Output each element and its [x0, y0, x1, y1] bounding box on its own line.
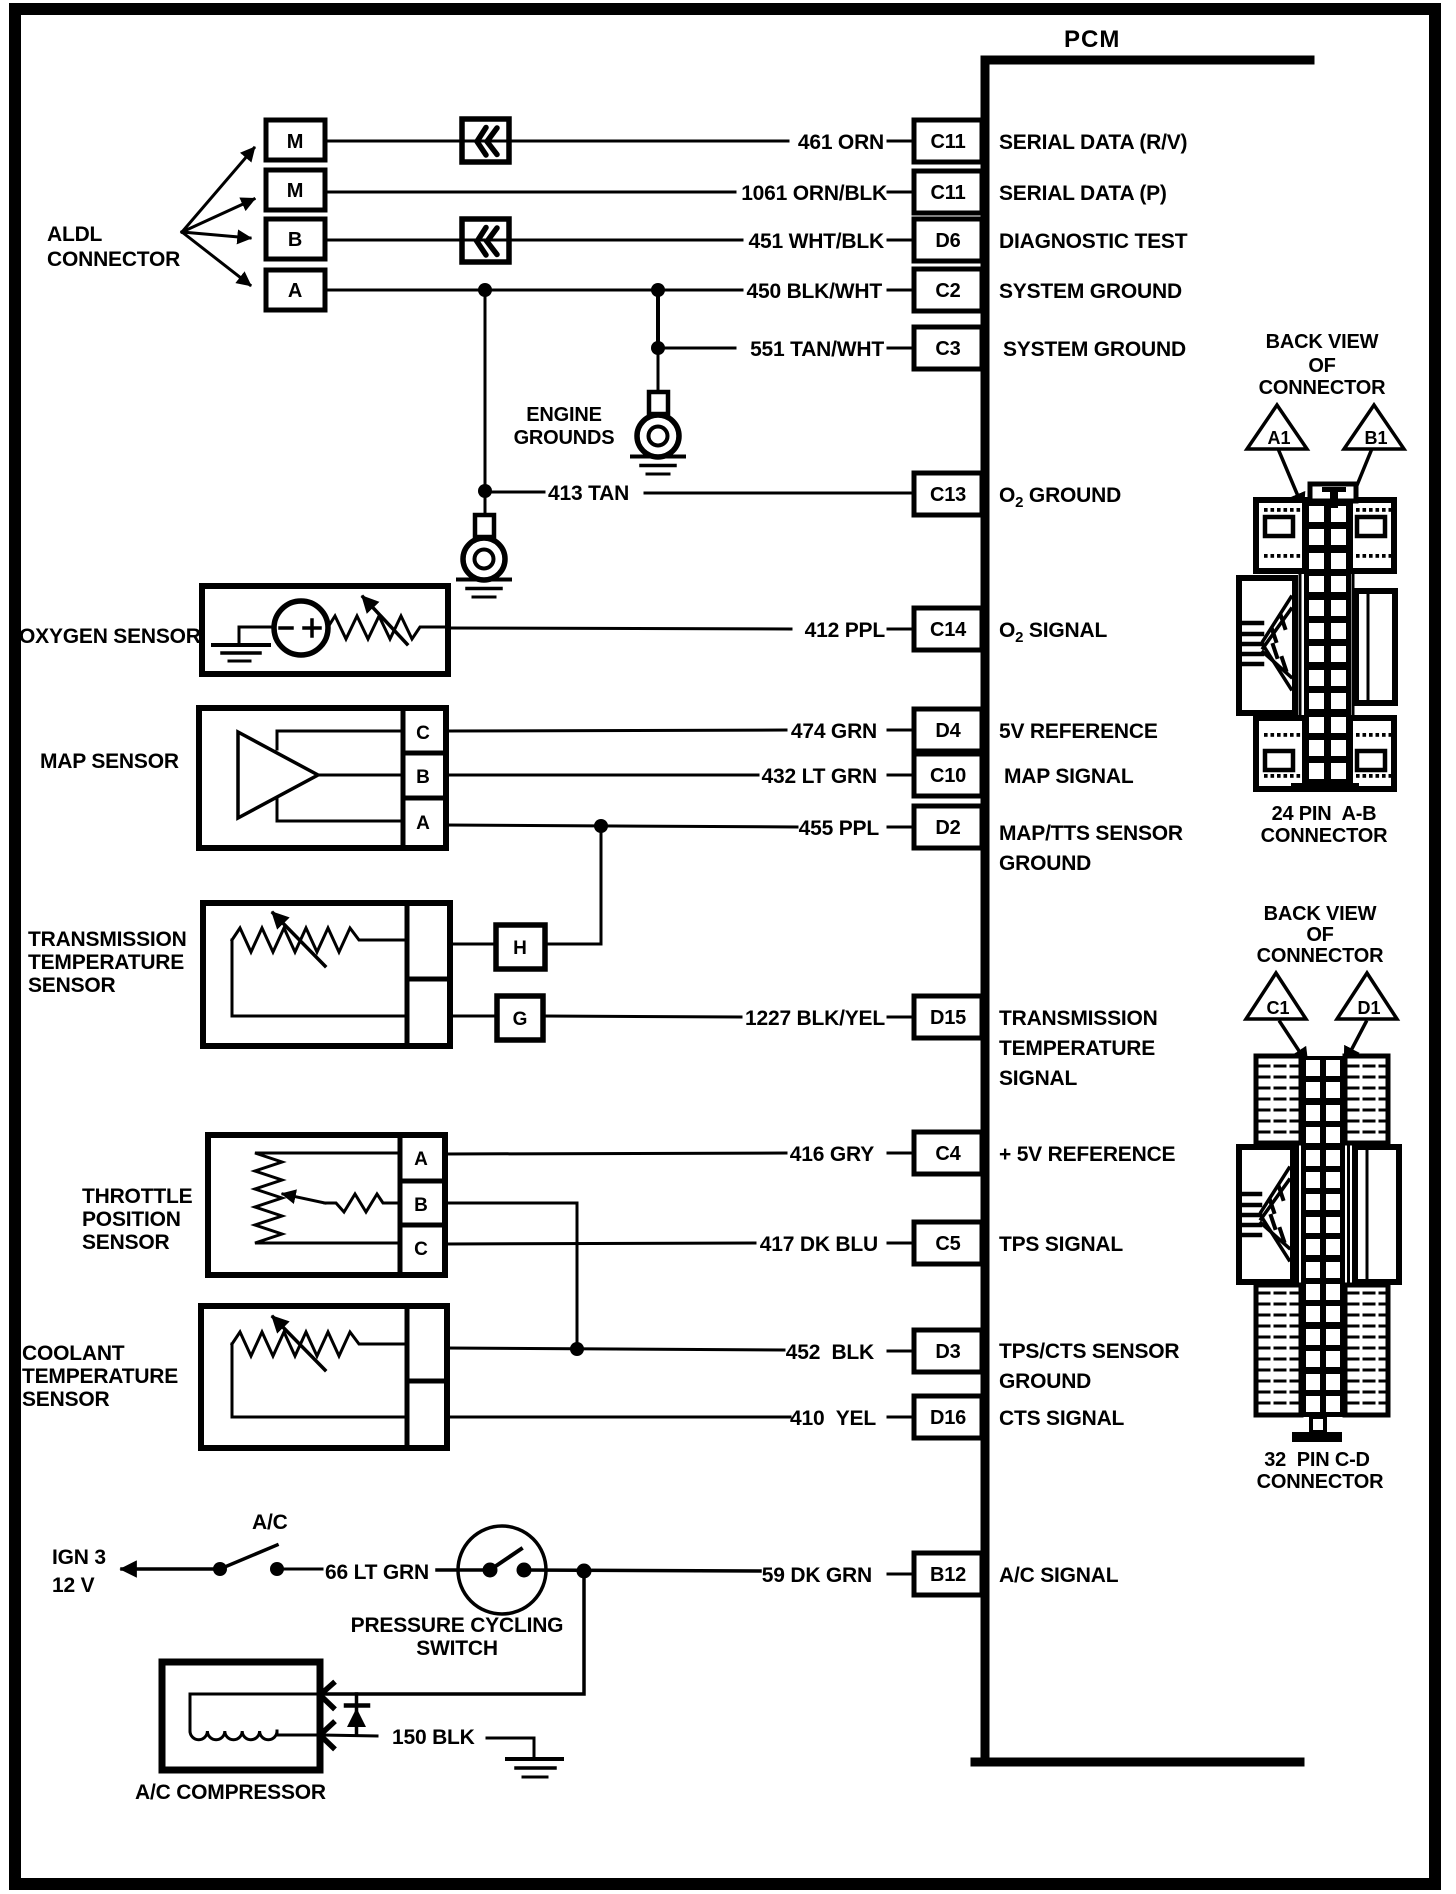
MAP wire A	[277, 799, 403, 821]
svg-text:DIAGNOSTIC TEST: DIAGNOSTIC TEST	[999, 230, 1188, 253]
BACK VIEW OF CONNECTOR label (24 pin)	[1259, 331, 1386, 399]
svg-text:SENSOR: SENSOR	[82, 1231, 170, 1254]
svg-text:474 GRN: 474 GRN	[791, 720, 877, 743]
PCM pin C3	[914, 327, 982, 369]
wire 1227 BLK/YEL to D15	[543, 1016, 741, 1017]
svg-text:CONNECTOR: CONNECTOR	[1259, 377, 1386, 399]
svg-text:POSITION: POSITION	[82, 1208, 181, 1231]
arrow D1 to connector	[1345, 1022, 1366, 1062]
compressor connector terminal	[320, 1723, 333, 1748]
TTS bottom wire	[232, 940, 407, 1016]
svg-text:416 GRY: 416 GRY	[790, 1143, 874, 1166]
compressor clutch coil L1	[190, 1694, 320, 1740]
svg-text:C3: C3	[935, 338, 960, 360]
svg-text:SYSTEM GROUND: SYSTEM GROUND	[1003, 338, 1186, 361]
svg-text:SENSOR: SENSOR	[22, 1388, 110, 1411]
svg-text:ALDL: ALDL	[47, 223, 103, 246]
oxygen sensor cell (battery symbol)	[274, 601, 328, 655]
svg-text:CONNECTOR: CONNECTOR	[1257, 945, 1384, 967]
svg-text:C11: C11	[931, 131, 966, 153]
svg-text:A/C: A/C	[252, 1511, 288, 1534]
svg-text:SYSTEM GROUND: SYSTEM GROUND	[999, 280, 1182, 303]
node A1 flag	[1247, 405, 1307, 449]
junction node	[651, 341, 665, 355]
COOLANT TEMPERATURE SENSOR label	[22, 1342, 178, 1411]
svg-text:GROUND: GROUND	[999, 1370, 1091, 1393]
svg-text:+ 5V REFERENCE: + 5V REFERENCE	[999, 1143, 1176, 1166]
ENGINE GROUNDS label	[514, 404, 615, 449]
PCM module outline U1	[985, 60, 1310, 1762]
junction node	[478, 283, 492, 297]
MAP wire C	[277, 731, 403, 749]
PCM pin C14	[914, 608, 982, 650]
node D1 flag	[1337, 973, 1397, 1019]
data link chevron symbol	[477, 128, 497, 156]
svg-text:A/C COMPRESSOR: A/C COMPRESSOR	[135, 1781, 326, 1804]
CTS thermistor	[232, 1332, 407, 1356]
svg-text:451 WHT/BLK: 451 WHT/BLK	[749, 230, 885, 253]
wire down to compressor	[322, 1571, 584, 1694]
svg-text:413 TAN: 413 TAN	[548, 482, 629, 505]
wire TTS to H	[450, 943, 496, 946]
ALDL terminal M1	[266, 120, 325, 160]
svg-text:OF: OF	[1308, 355, 1335, 377]
svg-text:450 BLK/WHT: 450 BLK/WHT	[747, 280, 883, 303]
throttle position sensor box	[208, 1135, 445, 1275]
svg-text:SERIAL DATA (P): SERIAL DATA (P)	[999, 182, 1167, 205]
32 pin C-D connector body	[1239, 1056, 1399, 1442]
svg-text:GROUND: GROUND	[999, 852, 1091, 875]
svg-text:B: B	[416, 767, 430, 788]
24 pin A-B connector body	[1239, 484, 1395, 792]
svg-text:C5: C5	[935, 1233, 960, 1255]
svg-text:MAP/TTS SENSOR: MAP/TTS SENSOR	[999, 822, 1183, 845]
wire TPS B down to ground node	[445, 1203, 577, 1349]
pin D15 function label	[999, 1007, 1158, 1090]
svg-text:C: C	[416, 723, 430, 744]
svg-text:CTS SIGNAL: CTS SIGNAL	[999, 1407, 1125, 1430]
wire down to 551 junction	[656, 290, 660, 348]
svg-text:C10: C10	[930, 765, 966, 787]
ground	[507, 1759, 562, 1777]
wire label 416	[790, 1143, 914, 1166]
A/C switch	[213, 1545, 284, 1576]
svg-text:D6: D6	[935, 230, 960, 252]
svg-text:D1: D1	[1357, 998, 1380, 1018]
svg-text:C2: C2	[935, 280, 960, 302]
svg-text:TEMPERATURE: TEMPERATURE	[999, 1037, 1155, 1060]
PCM pin C5	[914, 1222, 982, 1264]
TPS potentiometer	[255, 1153, 400, 1243]
pin D2 function label	[999, 822, 1183, 875]
junction node	[478, 484, 492, 498]
svg-text:452 BLK: 452 BLK	[786, 1341, 874, 1364]
wire 417 DK BLU to C5	[445, 1243, 755, 1244]
wire label 461	[798, 131, 914, 154]
PCM pin D15	[914, 996, 982, 1038]
node B1 flag	[1344, 405, 1404, 449]
svg-text:PRESSURE CYCLING: PRESSURE CYCLING	[351, 1614, 564, 1637]
wire TTS to G	[450, 1015, 497, 1018]
svg-text:C1: C1	[1266, 998, 1289, 1018]
wire 66 LT GRN	[284, 1568, 322, 1571]
wire label 410	[790, 1407, 914, 1430]
svg-text:SWITCH: SWITCH	[416, 1637, 498, 1660]
ALDL terminal A4	[266, 270, 325, 310]
diode D1	[346, 1694, 368, 1735]
svg-text:PCM: PCM	[1064, 26, 1120, 53]
svg-text:TRANSMISSION: TRANSMISSION	[999, 1007, 1158, 1030]
wire to IGN 3 with arrow	[122, 1567, 220, 1571]
wire label 452	[786, 1341, 914, 1364]
svg-text:551 TAN/WHT: 551 TAN/WHT	[750, 338, 884, 361]
PCM pin C11	[914, 120, 982, 162]
wire label 451	[749, 230, 914, 253]
svg-text:GROUNDS: GROUNDS	[514, 427, 615, 449]
svg-text:D4: D4	[935, 720, 961, 742]
wire A to C2 (450 BLK/WHT)	[325, 289, 742, 292]
svg-text:MAP SIGNAL: MAP SIGNAL	[1004, 765, 1134, 788]
svg-text:B1: B1	[1364, 428, 1387, 448]
A/C compressor box	[162, 1662, 320, 1770]
ALDL terminal M2	[266, 170, 325, 210]
TTS thermistor arrow	[273, 913, 325, 966]
svg-text:CONNECTOR: CONNECTOR	[1261, 825, 1388, 847]
PCM pin C11	[914, 171, 982, 213]
svg-text:THROTTLE: THROTTLE	[82, 1185, 193, 1208]
pressure cycling switch	[458, 1526, 546, 1614]
svg-text:C4: C4	[935, 1143, 961, 1165]
svg-text:412 PPL: 412 PPL	[805, 619, 886, 642]
svg-text:66 LT GRN: 66 LT GRN	[325, 1561, 429, 1584]
wire 413 TAN segment	[485, 491, 544, 494]
wire down to engine ground 2	[484, 491, 487, 516]
wire out of pressure switch	[524, 1570, 760, 1571]
wire 452 BLK to D3	[447, 1348, 784, 1350]
svg-text:1061 ORN/BLK: 1061 ORN/BLK	[741, 182, 887, 205]
svg-text:32 PIN C-D: 32 PIN C-D	[1264, 1449, 1370, 1471]
svg-text:OF: OF	[1306, 924, 1333, 946]
TPS pin column	[400, 1135, 445, 1275]
svg-text:150 BLK: 150 BLK	[392, 1726, 475, 1749]
MAP amplifier triangle	[238, 732, 318, 818]
svg-text:410 YEL: 410 YEL	[790, 1407, 876, 1430]
wire 150 BLK	[322, 1735, 377, 1736]
svg-text:SENSOR: SENSOR	[28, 974, 116, 997]
svg-text:TEMPERATURE: TEMPERATURE	[22, 1365, 178, 1388]
wire 551 TAN/WHT to C3	[658, 347, 735, 350]
terminal H	[496, 925, 545, 969]
ALDL arrow fan	[182, 148, 254, 285]
svg-text:C14: C14	[930, 619, 967, 641]
wire into pressure switch	[437, 1568, 490, 1572]
pin D3 function label	[999, 1340, 1179, 1393]
PCM pin B12	[914, 1553, 982, 1595]
svg-text:BACK VIEW: BACK VIEW	[1266, 331, 1379, 353]
variable resistor arrow	[363, 597, 407, 644]
svg-text:TEMPERATURE: TEMPERATURE	[28, 951, 184, 974]
svg-text:B: B	[414, 1195, 428, 1216]
svg-text:D3: D3	[935, 1341, 960, 1363]
wire label 450	[747, 280, 914, 303]
junction node	[577, 1564, 592, 1579]
MAP pin column	[403, 708, 446, 848]
wire label 455	[799, 817, 914, 840]
svg-text:B12: B12	[930, 1564, 966, 1586]
ALDL connector label	[47, 223, 180, 271]
CTS thermistor arrow	[273, 1317, 325, 1370]
wire 416 GRY to C4	[445, 1153, 786, 1154]
PCM pin C2	[914, 269, 982, 311]
svg-text:455 PPL: 455 PPL	[799, 817, 880, 840]
engine ground terminal 1	[632, 392, 684, 474]
wire down to engine ground 1	[657, 348, 660, 393]
svg-text:B: B	[288, 229, 302, 251]
wire 474 GRN to D4	[446, 730, 786, 731]
arrow B1 to connector	[1344, 451, 1371, 517]
svg-text:A: A	[288, 280, 302, 302]
THROTTLE POSITION SENSOR label	[82, 1185, 193, 1254]
svg-text:TPS SIGNAL: TPS SIGNAL	[999, 1233, 1123, 1256]
svg-text:1227 BLK/YEL: 1227 BLK/YEL	[745, 1007, 885, 1030]
ALDL terminal B3	[266, 219, 325, 259]
data link chevron box	[462, 219, 509, 262]
wire 455 PPL to D2	[446, 825, 797, 827]
wire label 412	[805, 619, 914, 642]
junction node	[570, 1342, 584, 1356]
svg-text:M: M	[287, 131, 303, 153]
svg-text:5V REFERENCE: 5V REFERENCE	[999, 720, 1158, 743]
svg-text:59 DK GRN: 59 DK GRN	[762, 1564, 872, 1587]
svg-text:ENGINE: ENGINE	[526, 404, 601, 426]
svg-text:A: A	[414, 1149, 428, 1170]
wire 432 LT GRN to C10	[446, 774, 758, 777]
oxygen sensor variable resistor	[328, 616, 448, 639]
svg-text:24 PIN A-B: 24 PIN A-B	[1272, 803, 1377, 825]
PCM pin D3	[914, 1330, 982, 1372]
wire label 1227	[745, 1007, 914, 1030]
svg-text:417 DK BLU: 417 DK BLU	[760, 1233, 878, 1256]
wire label 59	[762, 1564, 914, 1587]
wire H up to 455 PPL	[545, 826, 601, 944]
PCM pin D4	[914, 709, 982, 751]
PCM pin D6	[914, 219, 982, 261]
wire O2 signal to C14	[448, 628, 791, 629]
svg-text:A: A	[416, 813, 430, 834]
PRESSURE CYCLING SWITCH label	[351, 1614, 564, 1660]
data link chevron symbol	[477, 228, 497, 256]
svg-text:461 ORN: 461 ORN	[798, 131, 884, 154]
svg-text:C13: C13	[930, 484, 966, 506]
wire M2 to C11	[325, 191, 735, 194]
wire down from 450 to 413 junction	[484, 290, 487, 491]
wire 413 TAN to C13	[645, 492, 914, 495]
TTS thermistor	[232, 928, 407, 952]
svg-text:A1: A1	[1267, 428, 1290, 448]
svg-text:MAP SENSOR: MAP SENSOR	[40, 750, 179, 773]
svg-text:SERIAL DATA (R/V): SERIAL DATA (R/V)	[999, 131, 1187, 154]
svg-text:432 LT GRN: 432 LT GRN	[762, 765, 877, 788]
TRANSMISSION TEMPERATURE SENSOR label	[28, 928, 187, 997]
terminal G	[497, 996, 543, 1040]
svg-text:12 V: 12 V	[52, 1574, 95, 1597]
svg-text:C: C	[414, 1239, 428, 1260]
CTS bottom wire	[232, 1344, 407, 1417]
IGN 3 12V label	[52, 1546, 106, 1597]
svg-text:C11: C11	[931, 182, 966, 204]
wire label 417	[760, 1233, 914, 1256]
svg-text:G: G	[513, 1009, 528, 1030]
data link chevron box	[462, 119, 509, 162]
arrow A1 to connector	[1279, 451, 1303, 508]
svg-text:CONNECTOR: CONNECTOR	[1257, 1471, 1384, 1493]
wire B to D6	[325, 239, 742, 242]
svg-text:COOLANT: COOLANT	[22, 1342, 125, 1365]
svg-text:D15: D15	[930, 1007, 966, 1029]
svg-text:H: H	[513, 938, 527, 959]
node C1 flag	[1246, 973, 1306, 1019]
svg-text:M: M	[287, 180, 303, 202]
PCM pin C13	[914, 473, 982, 515]
wire label 432	[762, 765, 914, 788]
PCM pin C10	[914, 754, 982, 796]
wire M1 to C11	[325, 140, 788, 143]
MAP wire B	[318, 774, 403, 777]
MAP sensor box	[199, 708, 446, 848]
transmission temperature sensor box	[203, 903, 450, 1046]
svg-text:A/C SIGNAL: A/C SIGNAL	[999, 1564, 1119, 1587]
oxygen sensor internal ground	[213, 627, 271, 661]
32 PIN C-D CONNECTOR label	[1257, 1449, 1384, 1493]
svg-text:IGN 3: IGN 3	[52, 1546, 106, 1569]
svg-text:BACK VIEW: BACK VIEW	[1264, 903, 1377, 925]
svg-text:D2: D2	[935, 817, 960, 839]
PCM pin D16	[914, 1396, 982, 1438]
TPS wiper resistor	[325, 1194, 400, 1212]
BACK VIEW OF CONNECTOR label (32 pin)	[1257, 903, 1384, 967]
junction node	[594, 819, 608, 833]
oxygen sensor box	[202, 586, 448, 674]
coolant temperature sensor box	[201, 1306, 447, 1448]
wire label 474	[791, 720, 914, 743]
wire label 1061	[741, 182, 914, 205]
compressor connector terminal	[320, 1684, 333, 1708]
TPS wiper arrow	[283, 1194, 325, 1203]
svg-text:OXYGEN SENSOR: OXYGEN SENSOR	[19, 625, 201, 648]
svg-text:SIGNAL: SIGNAL	[999, 1067, 1078, 1090]
PCM pin C4	[914, 1132, 982, 1174]
PCM pin D2	[914, 806, 982, 848]
svg-text:CONNECTOR: CONNECTOR	[47, 248, 180, 271]
wire to ground	[487, 1738, 534, 1757]
CTS pin column	[407, 1306, 447, 1448]
svg-text:TPS/CTS SENSOR: TPS/CTS SENSOR	[999, 1340, 1179, 1363]
junction node	[651, 283, 665, 297]
24 PIN A-B CONNECTOR label	[1261, 803, 1388, 847]
wire 410 YEL to D16	[447, 1416, 790, 1419]
arrow C1 to connector	[1280, 1022, 1307, 1063]
TTS pin column	[407, 903, 450, 1046]
engine ground terminal 2	[458, 515, 510, 597]
wire label 551	[750, 338, 914, 361]
svg-text:TRANSMISSION: TRANSMISSION	[28, 928, 187, 951]
svg-text:D16: D16	[930, 1407, 966, 1429]
